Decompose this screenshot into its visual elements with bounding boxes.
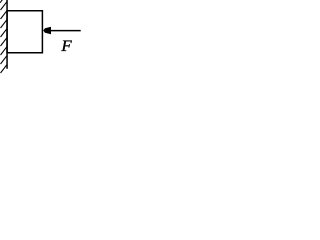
wall hatching [0,0,7,73]
force arrow shaft [50,30,81,32]
wall line [6,0,8,69]
force arrowhead [43,27,51,34]
block (square against wall) [7,11,42,53]
svg-text:F: F [60,38,72,55]
